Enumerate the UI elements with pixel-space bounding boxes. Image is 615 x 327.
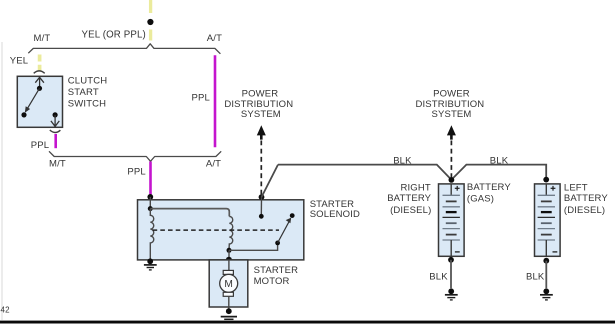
battery left (diesel) box [535, 184, 561, 256]
ground right battery [445, 288, 458, 300]
svg-text:YEL: YEL [10, 55, 28, 66]
power distribution system label right [415, 88, 484, 120]
node right battery positive junction dot [449, 177, 455, 183]
svg-text:LEFT: LEFT [564, 183, 588, 194]
connector arc bottom of clutch switch [50, 130, 61, 133]
svg-text:RIGHT: RIGHT [400, 183, 430, 194]
svg-text:A/T: A/T [207, 33, 222, 44]
wire coil2 to blade pivot [229, 243, 278, 250]
node blade pivot dot [275, 241, 280, 246]
page left margin line [1, 42, 3, 320]
node solenoid B+ terminal dot [259, 194, 265, 200]
wire dashed to power distribution left [260, 141, 262, 195]
svg-text:BLK: BLK [429, 271, 448, 282]
svg-text:DISTRIBUTION: DISTRIBUTION [415, 99, 484, 110]
wire PPL A/T vertical [214, 55, 217, 147]
svg-text:(DIESEL): (DIESEL) [390, 205, 431, 216]
svg-text:PPL: PPL [192, 93, 210, 104]
node PPL to solenoid junction dot [147, 194, 153, 200]
wire coil2 bottom to box edge [228, 250, 230, 260]
svg-text:SYSTEM: SYSTEM [241, 109, 281, 120]
motor M1 bottom terminal [223, 292, 233, 296]
coil pull-in winding left [150, 209, 153, 260]
solenoid contact blade arrow [278, 218, 292, 243]
svg-text:PPL: PPL [31, 140, 49, 151]
wire coil top link horizontal [150, 209, 229, 217]
arrow to power distribution right [447, 125, 456, 139]
node solenoid fixed contact dot [259, 214, 264, 219]
svg-text:MOTOR: MOTOR [254, 276, 290, 287]
svg-text:SOLENOID: SOLENOID [310, 209, 360, 220]
label STARTER MOTOR [254, 265, 299, 287]
svg-text:42: 42 [1, 306, 11, 315]
svg-text:BATTERY: BATTERY [387, 193, 431, 204]
motor M1 top terminal [223, 270, 233, 274]
power distribution system label left [224, 88, 293, 120]
wire PPL center to starter solenoid [149, 162, 152, 195]
ground left battery [540, 288, 553, 300]
node coil2 bottom dot [227, 248, 232, 253]
wire BLK horizontal main [278, 165, 546, 180]
svg-text:A/T: A/T [206, 158, 221, 169]
svg-text:(GAS): (GAS) [467, 193, 494, 204]
label RIGHT BATTERY (DIESEL) [387, 183, 431, 217]
arrow to power distribution left [257, 125, 266, 139]
starter motor box [209, 260, 248, 307]
svg-text:M: M [224, 279, 233, 290]
svg-text:START: START [68, 87, 99, 98]
clutch switch upper contact arrow [35, 77, 44, 88]
svg-text:SYSTEM: SYSTEM [432, 109, 472, 120]
label STARTER SOLENOID [310, 199, 360, 220]
svg-text:(DIESEL): (DIESEL) [564, 205, 605, 216]
node right battery bottom dot [448, 257, 454, 263]
connector arc top of clutch switch [34, 71, 45, 73]
svg-text:DISTRIBUTION: DISTRIBUTION [224, 99, 293, 110]
node clutch switch right contact dot [53, 112, 58, 117]
svg-text:BATTERY: BATTERY [564, 193, 608, 204]
node solenoid to starter motor dot [226, 257, 232, 263]
wire BLK diagonal from solenoid [262, 165, 279, 198]
battery right internal plates [443, 184, 460, 256]
node clutch switch left contact dot [21, 112, 26, 117]
node coil1 top dot [148, 206, 153, 211]
node clutch switch pivot dot [37, 86, 42, 91]
battery right minus sign [455, 251, 460, 253]
battery left internal plates [538, 184, 555, 256]
label CLUTCH START SWITCH [68, 76, 107, 110]
svg-text:SWITCH: SWITCH [68, 99, 106, 110]
svg-text:YEL (OR PPL): YEL (OR PPL) [82, 30, 146, 41]
clutch switch lower arrow to PPL [51, 115, 59, 127]
svg-text:BATTERY: BATTERY [467, 182, 511, 193]
wire motor to ground [228, 296, 230, 311]
wire YEL (OR PPL) top vertical dashed [149, 0, 152, 44]
svg-text:BLK: BLK [393, 155, 412, 166]
wire PPL stub below clutch switch [54, 134, 57, 148]
battery left plus sign [551, 186, 556, 191]
label BATTERY (GAS) [467, 182, 511, 205]
battery right (gas) box [439, 184, 465, 256]
starter solenoid box [138, 200, 304, 260]
svg-text:BLK: BLK [526, 271, 545, 282]
brace top M/T to A/T [28, 44, 220, 54]
svg-text:POWER: POWER [242, 88, 279, 99]
svg-text:M/T: M/T [34, 33, 51, 44]
battery right plus sign [455, 186, 460, 191]
clutch start switch box [17, 76, 62, 127]
node left battery bottom dot [543, 258, 549, 264]
node junction dot on YEL (OR PPL) wire [147, 19, 153, 25]
motor M1 body circle [220, 274, 238, 292]
node left battery positive junction dot [543, 177, 549, 183]
coil hold-in winding right [229, 216, 233, 250]
wire solenoid fixed contact stub [260, 197, 262, 216]
svg-text:POWER: POWER [433, 88, 470, 99]
wire motor input stub [228, 260, 230, 271]
wire BLK left battery to ground [545, 261, 547, 289]
ground solenoid [144, 258, 157, 270]
svg-text:PPL: PPL [127, 166, 145, 177]
clutch switch blade with arrowhead [25, 88, 40, 113]
wire solenoid input stub [149, 197, 151, 209]
brace bottom M/T to A/T [49, 151, 221, 161]
node blade target contact dot [290, 213, 295, 218]
battery left minus sign [553, 251, 558, 253]
mechanical link dashed line [153, 229, 279, 231]
wire YEL dashed to clutch start switch [38, 55, 42, 71]
wire dashed to power distribution right [450, 141, 452, 178]
label LEFT BATTERY (DIESEL) [564, 183, 608, 217]
ground starter motor [221, 308, 237, 319]
svg-text:M/T: M/T [49, 158, 66, 169]
svg-text:BLK: BLK [490, 156, 509, 167]
wire BLK right battery to ground [450, 260, 452, 288]
page bottom border line [0, 321, 615, 324]
svg-text:CLUTCH: CLUTCH [68, 76, 107, 87]
svg-text:STARTER: STARTER [254, 265, 299, 276]
